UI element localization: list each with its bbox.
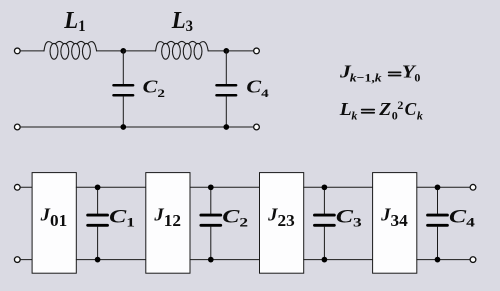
junction node top of C2: [208, 184, 214, 190]
svg-text:L1: L1: [63, 7, 85, 35]
wire C2 onward top rail: [211, 186, 260, 188]
svg-text:k: k: [351, 109, 357, 123]
wire J12 to C2 top rail: [190, 186, 211, 188]
wire C4 onward top rail: [438, 186, 471, 188]
wire C1 onward top rail: [98, 186, 146, 188]
capacitor C2: [114, 51, 134, 127]
svg-text:0: 0: [414, 71, 420, 85]
svg-text:C4: C4: [449, 206, 476, 229]
junction node D (bottom of C4): [223, 124, 229, 130]
wire P5 to J01: [20, 186, 32, 188]
port P5 (left top terminal, J-inverter network): [14, 184, 20, 190]
junction node A (top of C2): [120, 48, 126, 54]
svg-text:k−1,k: k−1,k: [350, 71, 382, 85]
wire C4 onward bottom rail: [438, 259, 471, 261]
wire C3 onward top rail: [324, 186, 372, 188]
port P1 (top-left input terminal): [14, 48, 20, 54]
junction node bottom of C1: [95, 257, 101, 263]
capacitor C2 (J-inverter network): [201, 187, 221, 259]
wire J23 to C3 top rail: [304, 186, 325, 188]
svg-text:C2: C2: [143, 76, 165, 99]
junction node top of C1: [95, 184, 101, 190]
junction node C (bottom of C2): [120, 124, 126, 130]
svg-text:Z: Z: [378, 99, 391, 119]
port P6 (left bottom terminal, J-inverter network): [14, 257, 20, 263]
wire J01 to C1 bottom rail: [76, 259, 97, 261]
equation L_k = Z_0^2 C_k: [339, 98, 423, 122]
wire L3 to node B: [208, 50, 226, 52]
svg-text:C: C: [405, 99, 417, 119]
svg-text:L3: L3: [171, 7, 193, 35]
junction node bottom of C4: [435, 257, 441, 263]
svg-text:C3: C3: [336, 206, 362, 229]
wire J23 to C3 bottom rail: [304, 259, 325, 261]
inductor L3: [156, 41, 209, 59]
wire P6 to J01: [20, 259, 32, 261]
port P8 (right bottom terminal, J-inverter network): [470, 257, 476, 263]
svg-text:C2: C2: [222, 206, 248, 229]
wire L1 to node A: [97, 50, 124, 52]
inverter box J01: [32, 173, 76, 274]
wire J34 to C4 bottom rail: [417, 259, 438, 261]
svg-text:C4: C4: [246, 76, 268, 99]
inductor L1: [44, 41, 97, 59]
wire J12 to C2 bottom rail: [190, 259, 211, 261]
port P4 (bottom-right terminal, top circuit): [254, 124, 260, 130]
port P7 (right top terminal, J-inverter network): [470, 184, 476, 190]
wire J34 to C4 top rail: [417, 186, 438, 188]
capacitor C3 (J-inverter network): [315, 187, 335, 259]
port P2 (top-right output terminal): [254, 48, 260, 54]
wire C3 onward bottom rail: [324, 259, 372, 261]
capacitor C4 (top circuit): [217, 51, 237, 127]
capacitor C4 (J-inverter network): [428, 187, 448, 259]
junction node top of C4: [435, 184, 441, 190]
wire P1 to L1: [20, 50, 44, 52]
wire ground rail of top circuit: [20, 126, 253, 128]
junction node B (top of C4): [223, 48, 229, 54]
junction node bottom of C2: [208, 257, 214, 263]
junction node top of C3: [322, 184, 328, 190]
wire J01 to C1 top rail: [76, 186, 97, 188]
capacitor C1 (J-inverter network): [88, 187, 108, 259]
inverter box J34: [373, 173, 417, 274]
svg-text:2: 2: [397, 98, 403, 112]
junction node bottom of C3: [322, 257, 328, 263]
equation J_(k-1,k) = Y_0: [339, 62, 421, 85]
svg-text:C1: C1: [109, 206, 135, 229]
inverter box J23: [260, 173, 304, 274]
wire node B to port P2: [226, 50, 253, 52]
inverter box J12: [146, 173, 190, 274]
port P3 (bottom-left terminal, top circuit): [14, 124, 20, 130]
wire C1 onward bottom rail: [98, 259, 146, 261]
wire node A to L3: [123, 50, 155, 52]
svg-text:k: k: [417, 109, 423, 123]
wire C2 onward bottom rail: [211, 259, 260, 261]
svg-text:L: L: [339, 99, 352, 119]
